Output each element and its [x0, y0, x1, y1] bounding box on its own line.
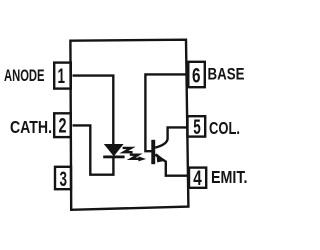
- svg-text:CATH.: CATH.: [10, 117, 52, 137]
- svg-text:4: 4: [193, 167, 202, 190]
- svg-text:6: 6: [192, 64, 201, 87]
- svg-text:COL.: COL.: [209, 118, 240, 138]
- svg-text:5: 5: [193, 116, 201, 139]
- svg-text:ANODE: ANODE: [4, 67, 45, 85]
- svg-text:BASE: BASE: [208, 66, 245, 84]
- svg-text:2: 2: [59, 114, 67, 137]
- svg-text:1: 1: [58, 65, 66, 88]
- svg-text:EMIT.: EMIT.: [211, 167, 248, 187]
- svg-text:3: 3: [60, 168, 68, 191]
